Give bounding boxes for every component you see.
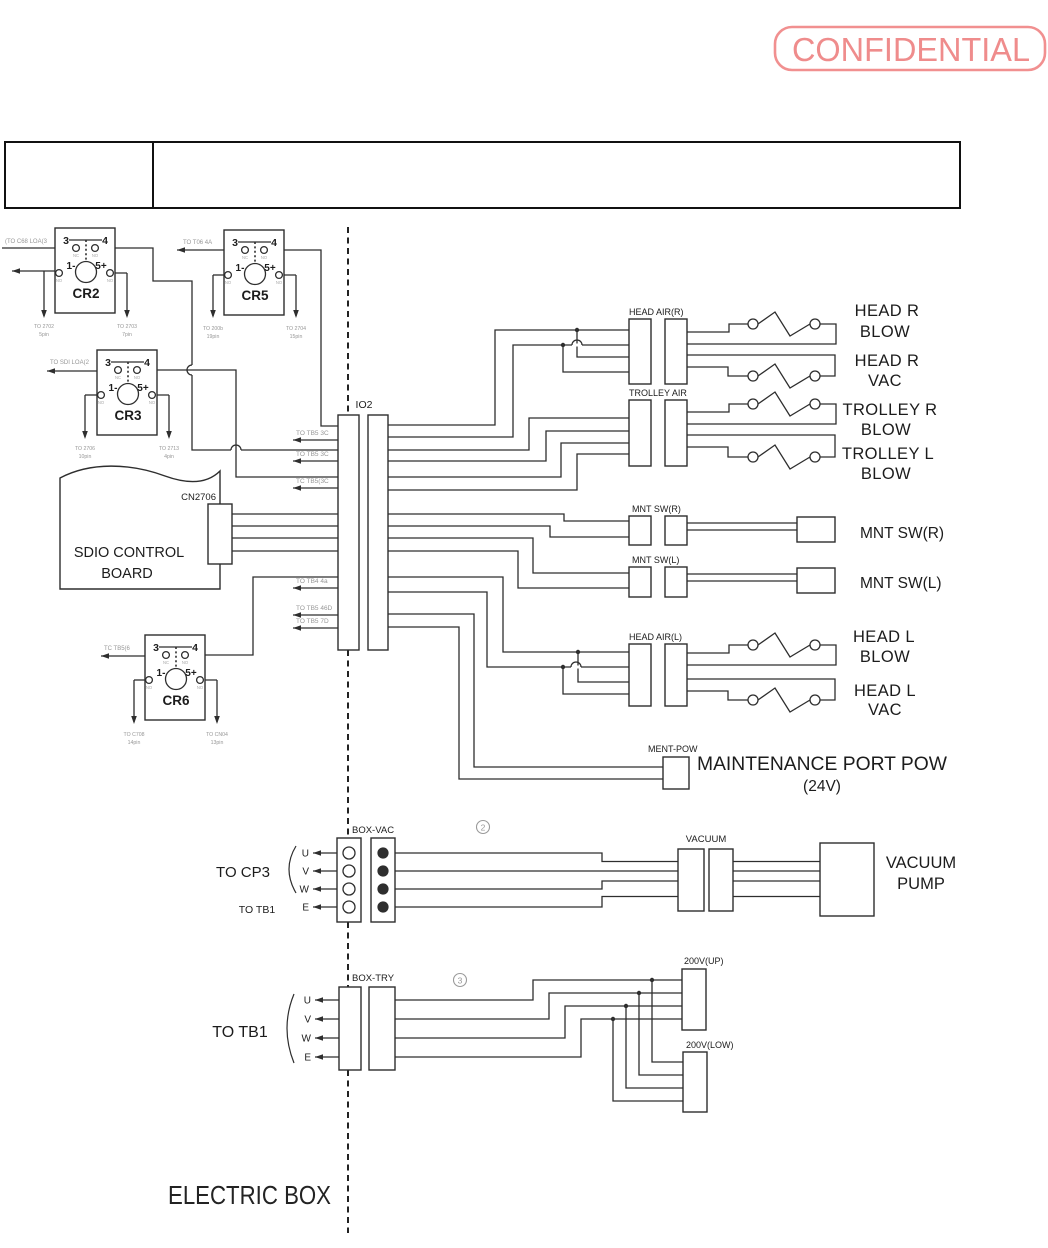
svg-text:HEAD R: HEAD R <box>855 302 920 320</box>
svg-text:TC TB5(3C: TC TB5(3C <box>296 478 329 485</box>
svg-text:3: 3 <box>153 642 159 654</box>
svg-text:VAC: VAC <box>868 372 902 390</box>
svg-text:NC: NC <box>115 375 121 380</box>
svg-text:CR2: CR2 <box>72 286 99 301</box>
svg-text:CN2706: CN2706 <box>181 492 216 503</box>
svg-text:NO: NO <box>146 685 153 690</box>
svg-text:NC: NC <box>73 253 79 258</box>
svg-text:TO TB5 3C: TO TB5 3C <box>296 430 329 437</box>
svg-text:TROLLEY R: TROLLEY R <box>843 401 938 419</box>
svg-text:BLOW: BLOW <box>860 323 910 341</box>
svg-text:15pin: 15pin <box>290 334 303 340</box>
svg-text:2: 2 <box>481 823 486 833</box>
svg-text:TO 2706: TO 2706 <box>75 446 95 452</box>
svg-text:7pin: 7pin <box>122 332 132 338</box>
svg-text:3: 3 <box>63 235 69 247</box>
svg-text:NO: NO <box>197 685 204 690</box>
svg-text:E: E <box>302 903 309 914</box>
svg-text:5+: 5+ <box>185 668 197 679</box>
svg-text:PUMP: PUMP <box>897 875 945 893</box>
svg-text:TO 2704: TO 2704 <box>286 326 306 332</box>
svg-text:MNT SW(R): MNT SW(R) <box>860 525 944 542</box>
svg-text:IO2: IO2 <box>356 399 373 411</box>
svg-text:TO TB1: TO TB1 <box>212 1024 268 1041</box>
svg-text:NO: NO <box>182 660 189 665</box>
svg-text:HEAD AIR(R): HEAD AIR(R) <box>629 307 684 317</box>
svg-text:4: 4 <box>102 235 108 247</box>
svg-text:TROLLEY AIR: TROLLEY AIR <box>629 388 687 398</box>
svg-text:BLOW: BLOW <box>861 465 911 483</box>
svg-text:3: 3 <box>105 357 111 369</box>
svg-text:NC: NC <box>163 660 169 665</box>
svg-text:BLOW: BLOW <box>860 648 910 666</box>
svg-text:BOARD: BOARD <box>101 566 153 582</box>
svg-text:14pin: 14pin <box>128 740 141 746</box>
svg-text:NC: NC <box>242 255 248 260</box>
svg-text:3: 3 <box>458 976 463 986</box>
svg-text:HEAD AIR(L): HEAD AIR(L) <box>629 632 682 642</box>
svg-text:U: U <box>302 849 309 860</box>
svg-text:5pin: 5pin <box>39 332 49 338</box>
svg-text:NO: NO <box>98 400 105 405</box>
svg-text:ELECTRIC BOX: ELECTRIC BOX <box>168 1180 331 1210</box>
svg-text:CR5: CR5 <box>241 288 268 303</box>
svg-text:MNT SW(R): MNT SW(R) <box>632 504 681 514</box>
svg-text:VACUUM: VACUUM <box>886 854 956 872</box>
svg-text:BOX-TRY: BOX-TRY <box>352 973 395 984</box>
svg-text:VAC: VAC <box>868 701 902 719</box>
svg-text:NO: NO <box>225 280 232 285</box>
svg-text:TO CP3: TO CP3 <box>216 864 270 881</box>
svg-text:SDIO CONTROL: SDIO CONTROL <box>74 545 184 561</box>
svg-text:HEAD R: HEAD R <box>855 352 920 370</box>
svg-text:MAINTENANCE PORT POW: MAINTENANCE PORT POW <box>697 754 947 775</box>
svg-text:200V(UP): 200V(UP) <box>684 956 724 966</box>
svg-text:(TO C68 LOA(3: (TO C68 LOA(3 <box>5 239 48 245</box>
svg-text:19pin: 19pin <box>207 334 220 340</box>
svg-text:NO: NO <box>107 278 114 283</box>
svg-text:TO TB5 46D: TO TB5 46D <box>296 605 333 612</box>
svg-text:HEAD L: HEAD L <box>854 682 916 700</box>
svg-text:W: W <box>302 1034 312 1045</box>
svg-text:TO T06 4A: TO T06 4A <box>183 240 212 246</box>
svg-text:TO SDI LOA(2: TO SDI LOA(2 <box>50 360 90 366</box>
svg-text:1-: 1- <box>67 261 76 272</box>
svg-text:CR3: CR3 <box>114 408 141 423</box>
svg-text:TO TB1: TO TB1 <box>239 904 276 916</box>
svg-text:TO TB5 3C: TO TB5 3C <box>296 451 329 458</box>
svg-text:HEAD L: HEAD L <box>853 628 915 646</box>
svg-text:CONFIDENTIAL: CONFIDENTIAL <box>792 31 1030 68</box>
svg-text:NO: NO <box>261 255 268 260</box>
svg-text:4: 4 <box>144 357 150 369</box>
svg-text:5+: 5+ <box>95 261 107 272</box>
svg-text:U: U <box>304 996 311 1007</box>
svg-text:NO: NO <box>56 278 63 283</box>
svg-text:1-: 1- <box>109 383 118 394</box>
svg-text:TO CN04: TO CN04 <box>206 732 228 738</box>
svg-text:4: 4 <box>192 642 198 654</box>
svg-text:TO TB4 4a: TO TB4 4a <box>296 578 328 585</box>
svg-text:MENT-POW: MENT-POW <box>648 744 698 754</box>
svg-text:V: V <box>302 867 309 878</box>
svg-text:NO: NO <box>276 280 283 285</box>
svg-text:TO TB5 7D: TO TB5 7D <box>296 618 329 625</box>
svg-text:TO 2703: TO 2703 <box>117 324 137 330</box>
svg-text:TO 2702: TO 2702 <box>34 324 54 330</box>
svg-text:NO: NO <box>149 400 156 405</box>
svg-text:W: W <box>300 885 310 896</box>
svg-text:V: V <box>304 1015 311 1026</box>
svg-text:200V(LOW): 200V(LOW) <box>686 1040 734 1050</box>
svg-text:4pin: 4pin <box>164 454 174 460</box>
svg-text:TC TB5(6: TC TB5(6 <box>104 646 131 652</box>
svg-text:E: E <box>304 1053 311 1064</box>
svg-text:MNT SW(L): MNT SW(L) <box>860 575 942 592</box>
svg-text:1-: 1- <box>236 263 245 274</box>
svg-text:5+: 5+ <box>137 383 149 394</box>
svg-text:13pin: 13pin <box>211 740 224 746</box>
svg-text:1-: 1- <box>157 668 166 679</box>
svg-text:10pin: 10pin <box>79 454 92 460</box>
svg-text:NO: NO <box>134 375 141 380</box>
svg-text:VACUUM: VACUUM <box>686 834 727 845</box>
svg-text:4: 4 <box>271 237 277 249</box>
svg-text:5+: 5+ <box>264 263 276 274</box>
svg-text:TO 2713: TO 2713 <box>159 446 179 452</box>
svg-text:TO C708: TO C708 <box>124 732 145 738</box>
svg-text:BOX-VAC: BOX-VAC <box>352 825 394 836</box>
svg-text:MNT SW(L): MNT SW(L) <box>632 555 679 565</box>
svg-text:(24V): (24V) <box>803 778 841 795</box>
svg-text:CR6: CR6 <box>162 693 189 708</box>
svg-text:TO 200b: TO 200b <box>203 326 223 332</box>
svg-text:BLOW: BLOW <box>861 421 911 439</box>
svg-text:NO: NO <box>92 253 99 258</box>
svg-text:TROLLEY L: TROLLEY L <box>842 445 934 463</box>
svg-text:3: 3 <box>232 237 238 249</box>
